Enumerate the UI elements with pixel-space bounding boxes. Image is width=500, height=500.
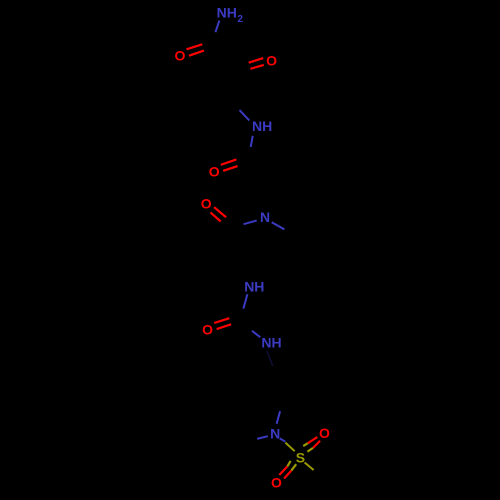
wire N4-S olive half-bond [285, 443, 294, 452]
wire N(H)-C8 faint half-bond [267, 351, 273, 367]
double bond C7=O5 [214, 318, 231, 329]
wire S-CH3 olive half-bond [305, 463, 314, 471]
svg-text:O: O [202, 322, 213, 338]
double bond C2=O2 [249, 58, 264, 69]
double bond S=O6 [303, 437, 320, 452]
svg-text:2: 2 [237, 14, 243, 25]
svg-text:O: O [175, 48, 186, 64]
svg-text:O: O [266, 52, 277, 68]
wire N(H2)-C1 blue half-bond [215, 21, 219, 33]
svg-text:NH: NH [217, 5, 237, 21]
double bond S=O7 [279, 461, 296, 479]
svg-text:NH: NH [252, 118, 272, 134]
amine label NH2 [217, 5, 244, 25]
svg-text:S: S [296, 450, 305, 466]
wire N4-S blue half-bond [280, 438, 286, 441]
wire C3-N(H) blue half-bond [240, 110, 250, 120]
double bond C5=O4 [211, 207, 227, 221]
svg-text:O: O [319, 425, 330, 441]
svg-text:O: O [201, 195, 212, 211]
svg-text:N: N [260, 209, 270, 225]
svg-text:O: O [209, 163, 220, 179]
double bond C4=O3 [221, 159, 238, 170]
wire C9-N4 blue half-bond [277, 411, 281, 424]
svg-text:NH: NH [244, 279, 264, 295]
wire N(H)-C4 blue half-bond [251, 136, 253, 147]
double bond C1=O1 [187, 44, 204, 55]
svg-text:O: O [271, 475, 282, 491]
wire N(H)-C7 blue half-bond [243, 294, 247, 308]
svg-text:NH: NH [261, 334, 281, 350]
wire C5-N2 blue half-bond [244, 221, 257, 225]
wire N2-CH3 blue half-bond [272, 222, 285, 229]
wire C7-N(H) blue half-bond [252, 331, 260, 337]
svg-text:N: N [270, 425, 280, 441]
wire N4-C10 blue half-bond [257, 436, 268, 439]
